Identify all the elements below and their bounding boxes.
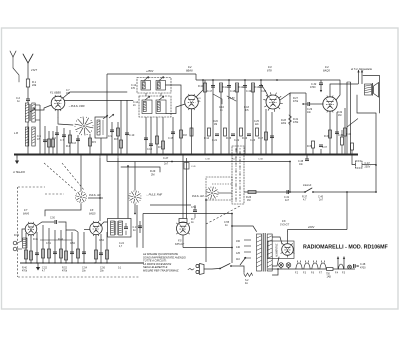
resistor R36 on return bbox=[341, 137, 344, 145]
svg-text:C.37: C.37 bbox=[322, 147, 328, 149]
resistor R44 bbox=[60, 230, 62, 263]
wire speaker return bbox=[357, 95, 376, 113]
resistor R31 (volume pot) bbox=[289, 115, 292, 125]
svg-text:R.28: R.28 bbox=[281, 120, 287, 122]
capacitor C38 (below bus) bbox=[306, 155, 308, 160]
hum coil under F7 bbox=[23, 238, 28, 248]
IF transformer T1 (dashed can, FM) bbox=[137, 78, 171, 94]
svg-text:C.56: C.56 bbox=[191, 207, 197, 209]
speaker frame bbox=[363, 76, 380, 114]
phono chassis dashed outline bbox=[17, 187, 19, 277]
svg-text:R.44: R.44 bbox=[58, 239, 64, 241]
tube F1 converter 6BE6 bbox=[51, 96, 65, 110]
svg-text:L.B: L.B bbox=[14, 131, 18, 135]
svg-text:C.17: C.17 bbox=[207, 90, 213, 93]
wire switched mains down x347 bbox=[346, 192, 348, 230]
svg-text:+250V: +250V bbox=[146, 70, 154, 73]
svg-text:C.52: C.52 bbox=[70, 243, 76, 245]
capacitor C37 bbox=[320, 149, 322, 155]
tube F3 detector 6T8 bbox=[266, 95, 280, 109]
svg-text:R.17: R.17 bbox=[258, 137, 264, 140]
wire phono bias line bbox=[40, 239, 72, 241]
svg-text:R.14: R.14 bbox=[204, 137, 210, 140]
resistor R5 bbox=[89, 138, 92, 146]
svg-text:F.3: F.3 bbox=[268, 65, 272, 69]
wire pickup to F7 grid bbox=[22, 229, 25, 241]
resistor R41 bbox=[30, 251, 33, 260]
capacitor C17 in T3 box bbox=[125, 223, 127, 227]
switch wafer S2 (pushbutton, left) bbox=[137, 196, 142, 199]
wire HT secondary to F6 plate bbox=[272, 237, 282, 244]
wire F4 screen bbox=[336, 80, 340, 100]
svg-text:F.6: F.6 bbox=[282, 219, 286, 223]
mains switch lever bbox=[219, 268, 221, 270]
resistor R3 bbox=[52, 131, 54, 155]
resistor R7b bbox=[162, 117, 164, 155]
capacitor C54 bbox=[100, 234, 102, 263]
svg-text:R.18: R.18 bbox=[244, 107, 250, 109]
capacitor C4 bbox=[44, 126, 46, 155]
wire bus to C47 bbox=[352, 155, 356, 165]
svg-text:R.15: R.15 bbox=[226, 137, 232, 140]
tube F8 phono output bbox=[90, 222, 102, 234]
wire diagonal to C47 area bbox=[347, 119, 358, 128]
tube F7 phono preamp bbox=[25, 223, 37, 235]
junction dots on rail bbox=[202, 79, 204, 81]
pilot lamp bbox=[348, 265, 352, 269]
svg-text:F.4: F.4 bbox=[325, 65, 329, 69]
svg-text:F.5: F.5 bbox=[178, 239, 182, 243]
resistor R2 bbox=[48, 131, 50, 155]
wire volume line down bbox=[289, 162, 291, 193]
wire x128 down to phono transformer bbox=[127, 166, 129, 204]
resistor R46 bbox=[106, 232, 108, 263]
phono ground symbol bbox=[37, 263, 39, 265]
wire F7 cathode bbox=[30, 235, 32, 263]
volume control line pair bbox=[290, 92, 306, 94]
output transformer OT feed arrows bbox=[358, 70, 360, 84]
resistor R29 line bbox=[121, 167, 160, 172]
svg-text:PULS. AM→: PULS. AM→ bbox=[192, 195, 206, 198]
svg-text:C.21: C.21 bbox=[212, 139, 218, 142]
wire phono feed x100 bbox=[99, 158, 101, 221]
wire F2 plate to rail bbox=[196, 80, 203, 97]
output transformer (speaker) bbox=[365, 84, 372, 95]
heater stubs F4 F5 bbox=[337, 257, 339, 270]
svg-text:C.8: C.8 bbox=[72, 142, 77, 145]
capacitor C41 under bus bbox=[184, 163, 189, 170]
capacitor C7 bbox=[63, 128, 65, 155]
svg-text:C.19: C.19 bbox=[246, 90, 252, 93]
B+ vertical right bbox=[375, 113, 377, 192]
ground symbol bbox=[16, 155, 18, 158]
svg-text:6AV6: 6AV6 bbox=[23, 213, 30, 216]
tube F6 rectifier 5Y3 bbox=[282, 244, 294, 256]
svg-text:R.11: R.11 bbox=[222, 86, 228, 89]
antenna bbox=[23, 54, 33, 63]
wire F8 plate to transformer bbox=[100, 222, 108, 226]
lower row resistor R14 bbox=[208, 128, 211, 136]
wire to F8 grid bbox=[66, 226, 75, 230]
dial lamp L1 bbox=[279, 263, 284, 268]
capacitor C31 bbox=[286, 190, 288, 194]
capacitor C53 bbox=[83, 232, 85, 263]
band coil L2 bbox=[25, 127, 28, 146]
svg-text:PULS. AM: PULS. AM bbox=[89, 194, 101, 197]
capacitor C19 bbox=[244, 80, 246, 155]
pushbutton bank (dashed box) bbox=[232, 146, 244, 204]
wire band to right bbox=[244, 191, 300, 193]
lower row resistor R17 bbox=[256, 128, 259, 136]
svg-text:C.25: C.25 bbox=[254, 121, 260, 123]
svg-text:C.34: C.34 bbox=[258, 159, 263, 161]
tube F5 rectifier 6X5GT bbox=[177, 222, 190, 235]
svg-text:R.39: R.39 bbox=[14, 235, 20, 237]
wire F1 plate to IF can bbox=[63, 92, 127, 98]
svg-text:R.20: R.20 bbox=[213, 121, 219, 123]
wire F1 cathode to S1 bbox=[58, 118, 73, 125]
svg-text:R.12: R.12 bbox=[238, 86, 244, 89]
svg-text:R.10: R.10 bbox=[198, 85, 204, 88]
wire T1-T2 links bbox=[145, 93, 147, 96]
resistor R26 bbox=[248, 191, 256, 194]
svg-text:→PULS. FMF: →PULS. FMF bbox=[68, 104, 85, 108]
phono output transformer T3 bbox=[108, 219, 132, 238]
svg-text:5Y3-GT: 5Y3-GT bbox=[280, 223, 289, 227]
wire antenna to C2 bbox=[27, 87, 29, 99]
svg-text:C.15: C.15 bbox=[168, 137, 174, 140]
svg-text:R.41: R.41 bbox=[33, 239, 39, 241]
capacitor C6 padder bbox=[56, 126, 58, 155]
dashed contact row bbox=[212, 183, 232, 185]
wire y205 link bbox=[150, 204, 191, 206]
lower row capacitor C21 bbox=[215, 133, 219, 135]
wire phono link junction bbox=[231, 213, 233, 215]
svg-text:125: 125 bbox=[236, 252, 241, 255]
svg-text:C.56: C.56 bbox=[100, 268, 106, 270]
resistor R11 bbox=[220, 84, 222, 155]
wire to F3 grid bbox=[261, 84, 268, 96]
svg-text:R.8: R.8 bbox=[183, 134, 187, 137]
wire OT return pair bbox=[346, 82, 348, 155]
phono link wires up bbox=[142, 214, 144, 249]
svg-text:10n: 10n bbox=[307, 111, 312, 114]
wire T2 can legs bbox=[145, 117, 147, 155]
dashed shield box around S3 bbox=[206, 177, 232, 200]
svg-text:4A: 4A bbox=[245, 282, 248, 285]
capacitor C17b phono bbox=[139, 221, 141, 233]
wire S4 to phono input bbox=[45, 204, 81, 217]
IF transformer T2 (dashed can, AM) bbox=[139, 96, 171, 117]
svg-text:R.24: R.24 bbox=[232, 159, 237, 161]
wire F5 feed pair bbox=[182, 155, 184, 219]
resistor R13 bbox=[252, 84, 254, 155]
svg-text:4 MT: 4 MT bbox=[31, 68, 37, 72]
svg-text:250V: 250V bbox=[365, 165, 371, 168]
capacitor C13b bbox=[150, 117, 152, 155]
T1 primary winding bbox=[141, 81, 151, 91]
lower row capacitor C23 bbox=[247, 133, 251, 135]
wire B+ rail down to oscillator bbox=[106, 74, 108, 117]
wire plug feed up bbox=[205, 200, 207, 262]
svg-text:2n7: 2n7 bbox=[164, 163, 169, 166]
capacitor C47 electrolytic bbox=[356, 161, 363, 168]
mechanical link bank to mains switch (dashed) bbox=[206, 206, 240, 224]
screen rail (y80) bbox=[196, 79, 288, 81]
svg-text:4700: 4700 bbox=[310, 86, 316, 89]
ground bus (chassis) bbox=[14, 154, 358, 156]
svg-text:470k: 470k bbox=[22, 271, 28, 273]
AVC line bbox=[107, 161, 290, 163]
resistor R12 bbox=[236, 84, 238, 155]
lower row resistor R15 bbox=[224, 128, 227, 136]
svg-text:C.41: C.41 bbox=[191, 166, 196, 168]
T2 primary winding bbox=[142, 100, 152, 114]
heater loop F6 bbox=[312, 263, 318, 269]
voltage selector taps bbox=[244, 239, 251, 241]
capacitor C13 bbox=[144, 137, 148, 139]
heater loop F2 bbox=[296, 263, 302, 269]
heater loop F3 bbox=[304, 263, 310, 269]
svg-text:2M: 2M bbox=[151, 174, 154, 177]
svg-text:C.50: C.50 bbox=[50, 218, 56, 220]
bus junction dots bbox=[27, 154, 29, 156]
power transformer secondary bbox=[267, 234, 272, 271]
wire F4 cathode resistor R33 bbox=[329, 111, 331, 154]
svg-text:R.52: R.52 bbox=[62, 268, 68, 270]
svg-text:A TELAIO: A TELAIO bbox=[12, 170, 26, 174]
switch wafer S4 (tone) bbox=[83, 196, 87, 199]
capacitor C48 bbox=[353, 264, 355, 268]
B+ rail (top, left part) bbox=[107, 73, 196, 75]
resistor R7 bbox=[156, 136, 159, 144]
heater loop F7 bbox=[320, 263, 326, 269]
svg-text:4700: 4700 bbox=[360, 266, 366, 269]
antenna 2 (FM dipole) bbox=[10, 51, 16, 57]
svg-text:R.35: R.35 bbox=[307, 146, 313, 148]
capacitor C18 bbox=[228, 80, 230, 155]
antenna coil L1 (primary/secondary) bbox=[27, 101, 29, 103]
wire AVC drop left bbox=[106, 155, 108, 162]
svg-text:160: 160 bbox=[236, 240, 241, 243]
switch wafer S1 (band switch, oscillator) bbox=[86, 126, 94, 128]
capacitor C56 bbox=[194, 205, 196, 210]
resistor R45 bbox=[65, 230, 67, 263]
svg-text:6T8: 6T8 bbox=[267, 69, 272, 73]
capacitor C32 tone bbox=[320, 80, 322, 83]
svg-text:R.13: R.13 bbox=[254, 86, 260, 89]
svg-text:R.33: R.33 bbox=[324, 135, 330, 138]
svg-text:C.51: C.51 bbox=[46, 243, 52, 245]
heater bus bbox=[268, 268, 326, 270]
resistor R1 22k (antenna) bbox=[26, 79, 29, 87]
capacitor C9 bbox=[111, 122, 113, 155]
resistor R34 bbox=[344, 108, 346, 155]
svg-text:2n7: 2n7 bbox=[319, 199, 324, 202]
svg-text:RADIOMARELLI - MOD. RD106MF: RADIOMARELLI - MOD. RD106MF bbox=[303, 245, 389, 251]
wire F1 grid2 drop bbox=[120, 100, 122, 155]
svg-text:1M: 1M bbox=[214, 124, 217, 126]
svg-text:interrutt.: interrutt. bbox=[303, 184, 312, 187]
wire L3 to bus bbox=[100, 138, 102, 155]
wire F2 cathode bbox=[191, 109, 193, 155]
mains plug bbox=[188, 269, 194, 271]
svg-text:C.13: C.13 bbox=[147, 149, 153, 151]
svg-text:1M: 1M bbox=[338, 114, 341, 117]
lower row resistor R16 bbox=[240, 128, 243, 136]
wire phono feed x118 bbox=[117, 158, 119, 219]
svg-text:R.6: R.6 bbox=[114, 138, 119, 141]
switch wafer S3 (pushbutton, right) bbox=[214, 192, 219, 195]
resistor R4 bbox=[69, 130, 71, 155]
svg-text:C.54: C.54 bbox=[82, 268, 88, 270]
wire S1 down legs bbox=[77, 135, 79, 155]
wire T1 secondary to grid node bbox=[166, 85, 182, 98]
svg-text:C.27: C.27 bbox=[163, 157, 169, 160]
power transformer T4 primary bbox=[257, 234, 262, 271]
svg-text:C.22: C.22 bbox=[234, 139, 240, 142]
tube F2 IF amplifier 6BA6 bbox=[185, 95, 199, 109]
svg-text:1M: 1M bbox=[247, 199, 250, 202]
rectifier plate loop box bbox=[268, 241, 294, 259]
svg-text:a 4,5V: a 4,5V bbox=[228, 97, 235, 100]
T2 secondary winding bbox=[156, 100, 166, 114]
wire F4 plate to output transformer bbox=[330, 84, 358, 97]
wire HT lower bbox=[272, 257, 279, 266]
oscillator coil L3 box bbox=[95, 117, 107, 138]
svg-text:R.27: R.27 bbox=[293, 98, 299, 100]
svg-text:R.16: R.16 bbox=[242, 137, 248, 140]
svg-text:C.6: C.6 bbox=[52, 137, 57, 140]
svg-text:22k: 22k bbox=[32, 83, 37, 87]
speaker cone bbox=[374, 83, 379, 98]
pickup connector bbox=[13, 241, 17, 245]
wire feed pair bottom bbox=[183, 247, 232, 249]
decoupling drops rail to bus: resistor R10 bbox=[204, 80, 206, 155]
svg-text:470k: 470k bbox=[293, 101, 299, 103]
wire transformer 6.3V tap bbox=[272, 269, 278, 275]
capacitor C17 bbox=[212, 80, 214, 155]
svg-text:470k: 470k bbox=[293, 121, 299, 124]
svg-text:110: 110 bbox=[236, 258, 240, 261]
wire switched feed up bbox=[231, 214, 233, 264]
coupling capacitor C29 bbox=[307, 102, 309, 106]
svg-text:470k: 470k bbox=[62, 271, 68, 273]
bus end components bbox=[351, 150, 353, 155]
svg-text:6AQ5: 6AQ5 bbox=[323, 69, 330, 73]
trimmer arrows on L3 bbox=[103, 115, 108, 119]
resistor R43 bbox=[48, 228, 50, 263]
tube F4 output 6AQ5 bbox=[323, 97, 337, 111]
phono bus dots bbox=[25, 262, 26, 263]
capacitor C20 bbox=[260, 80, 262, 155]
wire star feed bbox=[134, 162, 136, 191]
svg-text:R.4: R.4 bbox=[66, 145, 71, 148]
svg-text:C.52: C.52 bbox=[42, 268, 48, 270]
capacitor C52 bbox=[71, 232, 73, 263]
tube F5 top cap bbox=[179, 219, 187, 223]
svg-text:220k: 220k bbox=[281, 123, 287, 125]
svg-text:F.1 6BE6: F.1 6BE6 bbox=[50, 91, 61, 95]
mechanical link dashed right bbox=[62, 163, 84, 190]
resistor R40 bbox=[25, 233, 27, 263]
volume pot phono bbox=[77, 232, 79, 263]
svg-text:MISURE PER TRASFORMAZ.: MISURE PER TRASFORMAZ. bbox=[143, 269, 179, 273]
resistor R42 bbox=[42, 225, 44, 263]
svg-text:C.54: C.54 bbox=[99, 240, 105, 242]
wire L1 secondary to V1 grid bbox=[35, 105, 51, 110]
svg-text:C.9: C.9 bbox=[108, 135, 113, 138]
svg-text:←PULS. FMF: ←PULS. FMF bbox=[146, 193, 163, 197]
svg-text:C.35: C.35 bbox=[338, 134, 344, 137]
svg-text:4n7: 4n7 bbox=[285, 199, 290, 202]
capacitor C10 bbox=[126, 100, 128, 155]
capacitor C50 bbox=[36, 232, 38, 263]
lower row capacitor C22 bbox=[231, 133, 235, 135]
wire F5 cathode down bbox=[182, 235, 184, 248]
phono ground bus bbox=[20, 262, 144, 264]
capacitor C2 bbox=[26, 98, 30, 100]
trimmer arrow on L1 bbox=[30, 108, 35, 112]
wire S4 output bbox=[88, 197, 103, 199]
svg-text:C.18: C.18 bbox=[230, 90, 236, 93]
wire F3 cathode drops bbox=[265, 109, 267, 155]
svg-text:C.16: C.16 bbox=[219, 107, 225, 109]
wiper arrow bbox=[302, 103, 306, 105]
wire F8 cathode bbox=[95, 235, 97, 263]
power transformer core bbox=[262, 233, 264, 272]
wire F7 plate coupling bbox=[36, 222, 54, 226]
T1 secondary winding bbox=[156, 81, 166, 91]
svg-text:1AB: 1AB bbox=[327, 275, 332, 278]
wire coil taps bbox=[35, 119, 40, 121]
resistor R35 bbox=[312, 148, 314, 155]
svg-text:ALIMENTAZ.: ALIMENTAZ. bbox=[276, 243, 279, 258]
svg-text:10n: 10n bbox=[299, 163, 304, 166]
svg-text:R.40: R.40 bbox=[22, 268, 28, 270]
capacitor C51 bbox=[54, 230, 56, 263]
svg-text:6BA6: 6BA6 bbox=[186, 69, 193, 73]
capacitor C15 bbox=[172, 117, 174, 155]
220V line bbox=[288, 229, 348, 231]
dial lamp L2 bbox=[286, 263, 291, 268]
wire S2 drop bbox=[134, 204, 136, 214]
wire F3 plate to volume bbox=[280, 93, 290, 100]
svg-text:C.7: C.7 bbox=[60, 139, 65, 142]
svg-text:C.10: C.10 bbox=[129, 134, 135, 137]
svg-text:220V: 220V bbox=[307, 225, 314, 229]
svg-text:R.5: R.5 bbox=[92, 141, 97, 144]
resistor R38 (heater dropper) bbox=[327, 268, 334, 271]
resistor R8 bbox=[180, 98, 182, 155]
svg-text:6AQ5: 6AQ5 bbox=[89, 213, 96, 216]
capacitor C35 bbox=[336, 112, 338, 155]
mechanical link dashed left bbox=[44, 163, 77, 192]
svg-text:140: 140 bbox=[236, 246, 241, 249]
wire mains feed to primary bbox=[232, 226, 257, 232]
resistor R6 bbox=[117, 122, 119, 155]
wire grid to F4 bbox=[321, 103, 324, 105]
svg-text:F.2: F.2 bbox=[188, 65, 192, 69]
wire diagonal F2 plate vicinity bbox=[213, 94, 222, 104]
wire F8 grid bbox=[84, 229, 90, 231]
svg-text:C.23: C.23 bbox=[250, 139, 256, 142]
svg-text:C.33: C.33 bbox=[205, 159, 210, 161]
wire F6 cathode B+ bbox=[287, 232, 289, 243]
wire T3 vertical links bbox=[136, 205, 138, 248]
wire S3 to bank bbox=[218, 192, 232, 194]
svg-text:C.24: C.24 bbox=[119, 243, 125, 245]
